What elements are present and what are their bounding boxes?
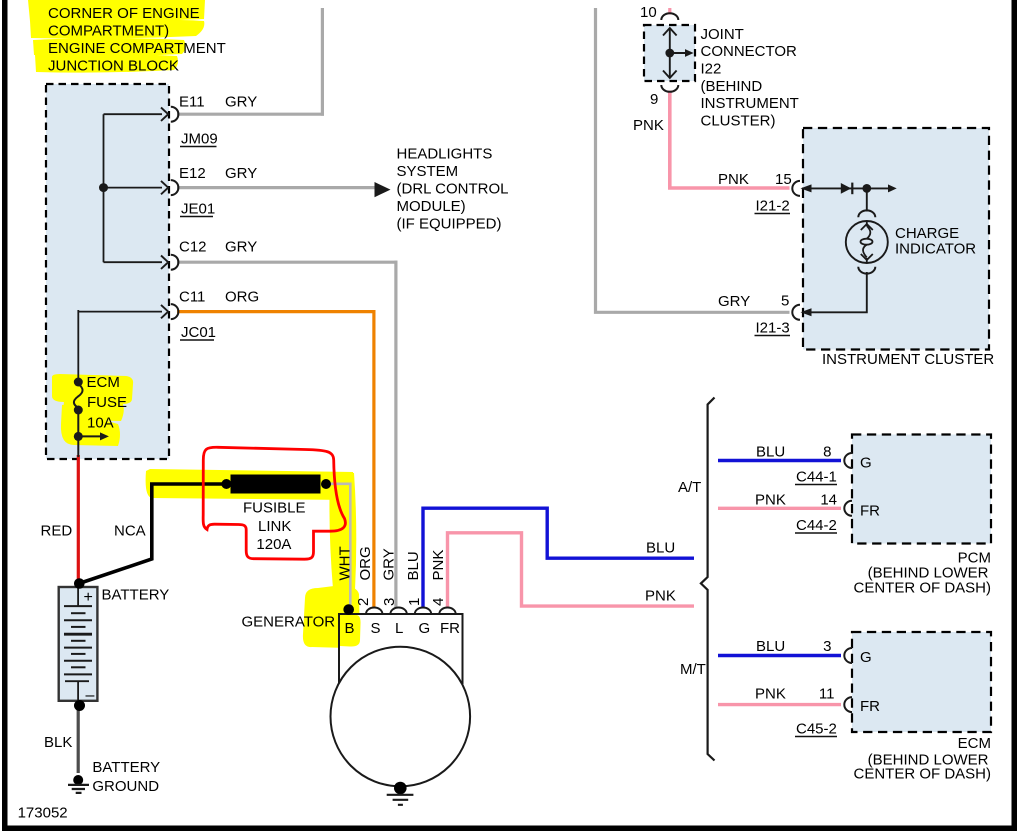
svg-text:BLU: BLU <box>756 444 785 461</box>
headlights system arrow <box>375 182 391 197</box>
highlighter stroke over title line 2 <box>30 19 204 39</box>
generator B terminal dot <box>343 604 354 615</box>
svg-text:GRY: GRY <box>225 239 257 256</box>
junction dot E12 branch <box>99 183 108 192</box>
svg-text:JM09: JM09 <box>181 131 218 148</box>
pin C11 arrow <box>161 305 168 318</box>
cluster pin 5 entry arrowhead <box>801 308 812 316</box>
svg-text:PNK: PNK <box>633 117 664 134</box>
svg-text:ORG: ORG <box>225 289 259 306</box>
svg-text:C44-2: C44-2 <box>796 517 837 534</box>
junction block inner bus vertical <box>103 114 105 262</box>
svg-text:INSTRUMENT CLUSTER: INSTRUMENT CLUSTER <box>822 351 994 368</box>
svg-text:JE01: JE01 <box>181 201 215 218</box>
svg-text:2: 2 <box>355 598 372 606</box>
svg-text:CLUSTER): CLUSTER) <box>701 113 776 130</box>
svg-text:10A: 10A <box>87 415 114 432</box>
generator ground symbol <box>387 795 414 805</box>
svg-text:(DRL CONTROL: (DRL CONTROL <box>397 181 509 198</box>
svg-text:3: 3 <box>381 598 398 606</box>
wire C12 GRY vertical to generator L <box>394 261 397 608</box>
svg-text:5: 5 <box>781 293 789 310</box>
svg-text:C45-2: C45-2 <box>796 721 837 738</box>
svg-text:(IF EQUIPPED): (IF EQUIPPED) <box>397 216 502 233</box>
wire BLU from generator G <box>423 508 694 608</box>
battery body <box>59 587 98 701</box>
svg-text:4: 4 <box>430 598 447 606</box>
svg-text:FUSIBLE: FUSIBLE <box>243 500 306 517</box>
battery ground symbol <box>68 785 89 793</box>
svg-text:JUNCTION BLOCK: JUNCTION BLOCK <box>48 58 179 75</box>
junction block branch to E12 <box>104 187 163 189</box>
svg-text:9: 9 <box>650 91 658 108</box>
joint connector pin 9 arc <box>661 85 678 92</box>
pin E11 arrow <box>161 108 168 121</box>
wire E11 GRY horizontal <box>177 113 324 116</box>
ECM box <box>852 632 991 732</box>
svg-text:BATTERY: BATTERY <box>102 587 170 604</box>
svg-text:PNK: PNK <box>430 550 447 581</box>
generator ground dot <box>394 782 407 795</box>
svg-text:HEADLIGHTS: HEADLIGHTS <box>397 146 493 163</box>
wire charge indicator to pin 5 <box>804 272 867 312</box>
svg-text:WHT: WHT <box>337 546 354 580</box>
red annotation loop around fusible link <box>203 447 345 559</box>
PCM box <box>852 435 991 544</box>
svg-text:RED: RED <box>41 523 73 540</box>
svg-text:JC01: JC01 <box>181 324 216 341</box>
wire E12 GRY to headlights arrow <box>177 186 376 189</box>
svg-text:NCA: NCA <box>114 523 146 540</box>
highlighter blob over 10A and fuse <box>64 400 124 421</box>
svg-text:GRY: GRY <box>225 94 257 111</box>
battery negative node dot <box>74 700 85 711</box>
svg-text:A/T: A/T <box>678 479 701 496</box>
svg-text:CORNER OF ENGINE: CORNER OF ENGINE <box>48 5 200 22</box>
PCM pin FR arc <box>844 501 852 516</box>
svg-text:15: 15 <box>775 171 792 188</box>
generator terminal box outline <box>339 614 463 683</box>
fuse feed arrow line <box>78 435 101 437</box>
A/T M/T selector brace <box>701 398 715 761</box>
svg-text:SYSTEM: SYSTEM <box>397 163 459 180</box>
wire BLU to ECM pin 3 <box>718 654 841 657</box>
svg-text:GRY: GRY <box>718 293 750 310</box>
cluster pin 15 arc <box>792 181 800 196</box>
svg-text:C11: C11 <box>179 289 205 306</box>
wire dot to charge indicator <box>866 188 868 211</box>
wire C12 GRY horizontal <box>177 261 398 264</box>
highlighter stroke over title line 4 <box>35 54 178 73</box>
fusible link left dot <box>221 479 231 489</box>
svg-text:L: L <box>395 620 403 637</box>
wire PNK 9 from joint connector to cluster pin 15 <box>670 91 790 189</box>
joint connector pin 10 arc <box>661 13 678 20</box>
svg-text:ENGINE COMPARTMENT: ENGINE COMPARTMENT <box>48 40 226 57</box>
highlighter strip along WHT wire <box>329 472 356 590</box>
battery positive node dot <box>74 578 85 589</box>
wire from fuse to block bottom <box>77 410 79 457</box>
wire PNK from generator FR <box>448 533 695 608</box>
svg-text:JOINT: JOINT <box>701 26 744 43</box>
svg-text:ECM: ECM <box>87 374 120 391</box>
pin E12 arrow <box>161 181 168 194</box>
charge indicator lamp element <box>861 222 873 263</box>
battery ground node dot <box>73 775 83 785</box>
battery plates <box>64 606 92 674</box>
cluster pin 15 entry arrowhead <box>801 184 812 192</box>
svg-text:14: 14 <box>820 492 837 509</box>
pin C12 connector arc <box>171 255 179 270</box>
page bottom border <box>2 826 1017 832</box>
svg-text:S: S <box>371 620 381 637</box>
diode D <box>841 183 851 194</box>
highlighter bar over fusible link wire <box>146 469 354 500</box>
generator S terminal arc <box>366 608 382 615</box>
generator terminal box <box>339 614 463 683</box>
ECM pin FR arc <box>844 697 852 712</box>
svg-text:BLU: BLU <box>646 540 675 557</box>
charge indicator bottom arc <box>858 267 875 274</box>
svg-text:I21-2: I21-2 <box>756 198 790 215</box>
fusible link right dot <box>321 479 331 489</box>
joint connector branch arrow <box>670 52 686 54</box>
wire BLK from battery to ground <box>77 707 80 773</box>
svg-text:PNK: PNK <box>645 588 676 605</box>
svg-text:CENTER OF DASH): CENTER OF DASH) <box>853 580 991 597</box>
joint connector up arrow <box>663 28 677 36</box>
wire NCA horizontal at fusible link <box>150 482 222 486</box>
wire GRY to instrument cluster pin 5 <box>596 8 790 312</box>
charge indicator lamp circle <box>846 221 888 263</box>
pin C11 connector arc <box>171 304 179 319</box>
svg-text:8: 8 <box>823 444 831 461</box>
fusible link body <box>231 475 321 494</box>
svg-text:FUSE: FUSE <box>87 394 127 411</box>
wire BLU to PCM pin 8 <box>718 459 841 462</box>
svg-text:GROUND: GROUND <box>92 778 159 795</box>
joint connector node dot <box>665 49 674 58</box>
joint connector I22 internal bus <box>669 28 671 78</box>
svg-text:E11: E11 <box>179 94 205 111</box>
pin E12 connector arc <box>171 180 179 195</box>
junction block branch to E11 <box>104 113 163 115</box>
svg-text:E12: E12 <box>179 165 206 182</box>
wire PNK above joint connector <box>668 8 671 15</box>
svg-text:INDICATOR: INDICATOR <box>895 241 976 258</box>
svg-text:FR: FR <box>440 620 460 637</box>
svg-text:10: 10 <box>640 4 657 21</box>
svg-text:120A: 120A <box>256 536 291 553</box>
svg-text:CENTER OF DASH): CENTER OF DASH) <box>853 766 991 783</box>
highlighter blob inside generator B cell <box>340 615 361 647</box>
highlighter stroke over title line 1 <box>28 0 205 22</box>
svg-text:FR: FR <box>860 698 880 715</box>
page left border <box>2 0 8 831</box>
ECM fuse top dot <box>74 378 83 387</box>
svg-text:PNK: PNK <box>755 686 786 703</box>
battery top stub <box>77 588 79 606</box>
generator FR terminal arc <box>439 608 455 615</box>
svg-text:+: + <box>84 589 93 606</box>
wire PNK to ECM pin 11 <box>718 703 841 706</box>
wire RED from junction block to battery <box>77 455 80 584</box>
ECM pin G arc <box>844 648 852 663</box>
svg-text:G: G <box>419 620 431 637</box>
highlighter stroke over title line 3 <box>33 38 186 56</box>
svg-text:FR: FR <box>860 502 880 519</box>
cluster wire pin15 to diode <box>802 187 890 189</box>
svg-text:MODULE): MODULE) <box>397 198 466 215</box>
pin E11 connector arc <box>171 107 179 122</box>
svg-text:GRY: GRY <box>225 165 257 182</box>
wire E11 GRY vertical to top edge <box>321 8 324 116</box>
svg-text:CONNECTOR: CONNECTOR <box>701 43 798 60</box>
svg-text:BLU: BLU <box>405 551 422 580</box>
svg-text:PNK: PNK <box>718 171 749 188</box>
highlighter blob over fuse arrow <box>61 405 120 446</box>
svg-text:(BEHIND: (BEHIND <box>701 78 763 95</box>
svg-text:LINK: LINK <box>258 518 291 535</box>
wire PNK to PCM pin 14 <box>718 507 841 510</box>
arrow to rest of cluster <box>888 184 897 192</box>
generator body circle <box>331 647 471 787</box>
junction block branch to C11 <box>78 311 162 313</box>
battery bottom terminal <box>65 681 89 700</box>
junction block wire down to ECM fuse <box>77 310 79 380</box>
PCM pin G arc <box>844 453 852 468</box>
svg-text:C44-1: C44-1 <box>796 469 837 486</box>
generator terminal labels B S L G FR <box>345 620 461 637</box>
wire C11 ORG horizontal <box>177 310 376 313</box>
svg-text:M/T: M/T <box>680 661 706 678</box>
highlighter blob over GENERATOR B terminal <box>303 586 360 648</box>
charge indicator top arc <box>858 210 875 217</box>
svg-text:B: B <box>345 620 355 637</box>
wire C11 ORG vertical to generator S <box>372 310 375 608</box>
svg-text:–: – <box>86 687 95 704</box>
generator G terminal arc <box>415 608 431 615</box>
svg-text:C12: C12 <box>179 239 207 256</box>
fuse feed arrowhead <box>100 432 109 440</box>
svg-text:PNK: PNK <box>755 492 786 509</box>
fuse feed node dot <box>74 432 83 441</box>
svg-text:COMPARTMENT): COMPARTMENT) <box>48 23 169 40</box>
wire NCA black from fusible link to battery <box>79 483 152 584</box>
svg-text:BLU: BLU <box>756 638 785 655</box>
ECM fuse element <box>74 384 83 408</box>
wire WHT from fusible link to generator B <box>326 484 350 606</box>
pin C12 arrow <box>161 256 168 269</box>
svg-text:BLK: BLK <box>44 734 72 751</box>
svg-text:1: 1 <box>406 598 423 606</box>
svg-text:G: G <box>860 649 872 666</box>
junction block branch to C12 <box>104 261 163 263</box>
svg-text:173052: 173052 <box>18 805 68 822</box>
svg-text:INSTRUMENT: INSTRUMENT <box>701 95 799 112</box>
svg-text:ECM: ECM <box>958 735 991 752</box>
svg-text:3: 3 <box>823 638 831 655</box>
diode output node dot <box>862 184 871 193</box>
joint connector down arrow <box>663 71 677 79</box>
joint connector I22 box <box>644 25 695 81</box>
svg-text:BATTERY: BATTERY <box>92 759 160 776</box>
highlighter blob over ECM FUSE label <box>52 374 133 404</box>
svg-text:ORG: ORG <box>357 546 374 580</box>
svg-text:GRY: GRY <box>381 548 398 580</box>
svg-text:GENERATOR: GENERATOR <box>242 613 336 630</box>
svg-text:G: G <box>860 454 872 471</box>
generator L terminal arc <box>390 608 406 615</box>
cluster pin 5 arc <box>792 305 800 320</box>
instrument cluster box <box>803 128 989 350</box>
svg-text:I22: I22 <box>701 61 722 78</box>
ECM fuse bottom dot <box>74 406 83 415</box>
svg-text:CHARGE: CHARGE <box>895 225 959 242</box>
svg-text:I21-3: I21-3 <box>756 320 790 337</box>
engine compartment junction block box <box>46 84 169 459</box>
page right border <box>1012 0 1018 831</box>
svg-text:11: 11 <box>819 686 835 703</box>
